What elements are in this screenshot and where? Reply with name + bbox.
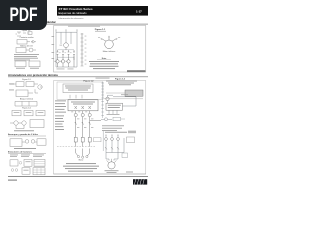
- lead stub 3: [116, 110, 118, 114]
- junction box: [122, 153, 128, 158]
- lc s2 fig 3: [12, 110, 45, 115]
- overload relay 2: [81, 133, 84, 147]
- pilot label 2: [111, 134, 113, 137]
- header title bar: [57, 6, 148, 16]
- aux contact circle: [105, 118, 108, 121]
- bottom bus: [56, 66, 77, 68]
- motor feed wire 3: [87, 149, 89, 157]
- wire into box: [123, 105, 137, 107]
- enclosure dashed boundary: [57, 146, 96, 148]
- lc s2 fig4 caption: [14, 129, 34, 132]
- motor M2: [108, 162, 115, 169]
- svg-text:Contacto auxiliar: Contacto auxiliar: [19, 36, 33, 39]
- lc fig row captions: [16, 67, 25, 70]
- M2 lead left: [107, 160, 109, 163]
- block text: [71, 101, 95, 104]
- control wire 2: [111, 140, 113, 152]
- M2 lead right: [114, 160, 116, 163]
- motor terminal T2: [108, 36, 109, 37]
- lc fig 3: [16, 48, 36, 53]
- coil wire: [65, 38, 67, 43]
- svg-text:Estaciones de botones: Estaciones de botones: [8, 150, 33, 153]
- motor terminal T1: [101, 38, 102, 39]
- motor lead T3: [112, 39, 116, 41]
- motor feed wire 2: [82, 149, 84, 157]
- contact slash 3: [89, 122, 91, 125]
- control wire 1: [105, 140, 107, 152]
- breaker pole 1: [75, 106, 77, 109]
- wire to coil row: [73, 56, 75, 60]
- block terminal numbers: [71, 111, 87, 114]
- overload relay 1: [74, 133, 77, 147]
- lc s3 column headers: [10, 155, 44, 157]
- phase wire 3 lower: [89, 117, 91, 133]
- phase wire 2: [82, 111, 84, 114]
- rail label 2: [52, 43, 55, 46]
- breaker pole 3: [89, 106, 91, 109]
- figure 2 corner label: [126, 171, 133, 174]
- lc s3 row1 box b: [24, 159, 32, 166]
- M2 caption: [105, 169, 119, 172]
- svg-text:1-17: 1-17: [136, 10, 142, 14]
- coil tail wire: [62, 63, 64, 67]
- catalog number box: [127, 70, 145, 72]
- contactor coil M: [64, 43, 69, 48]
- figure 2 frame: [54, 81, 146, 174]
- stub bar: [107, 113, 120, 116]
- note tag box: [94, 138, 102, 142]
- pilot circle 1: [105, 138, 108, 141]
- wire to coil row: [62, 56, 64, 60]
- overload coil 1: [56, 60, 59, 63]
- figure 2 bottom border: [54, 173, 146, 175]
- figure 1 title line: [68, 25, 100, 28]
- svg-text:Bloque terminal: Bloque terminal: [20, 97, 34, 100]
- NO contact 3: [68, 50, 70, 56]
- motor feed wire 1: [76, 149, 78, 157]
- coil lower wire: [65, 48, 67, 50]
- overload coil 3: [67, 60, 70, 63]
- pilot circle 2: [111, 138, 114, 141]
- terminal L1: [55, 31, 57, 33]
- pilot label 3: [117, 134, 119, 137]
- svg-text:Figura 1-5: Figura 1-5: [22, 78, 31, 81]
- svg-text:Arrancadores con protección té: Arrancadores con protección térmica: [8, 73, 58, 77]
- pilot circle 3: [117, 138, 120, 141]
- rail label 4: [52, 57, 55, 60]
- lc subheading A rule: [8, 135, 46, 137]
- svg-text:Arranque y parada de 2 hilos: Arranque y parada de 2 hilos: [8, 133, 39, 136]
- lc s2 fig 1: [10, 82, 42, 97]
- svg-text:Figura 1-3: Figura 1-3: [115, 78, 126, 81]
- right text lines: [106, 81, 137, 86]
- control wire 4: [123, 138, 125, 153]
- pilot label 1: [105, 134, 107, 137]
- coil labels: [54, 45, 67, 62]
- motor terminal circle 3: [86, 156, 88, 158]
- left strip continuation: [102, 131, 104, 151]
- figure 1 caption line 2: [95, 30, 106, 33]
- figure 2b bottom rule: [104, 98, 143, 100]
- NO contact 1: [57, 50, 59, 56]
- coil tail wire: [57, 63, 59, 67]
- svg-text:Motor: Motor: [79, 158, 84, 161]
- svg-text:XT IEC Freedom Series: XT IEC Freedom Series: [59, 7, 93, 11]
- wire to coil row: [68, 56, 70, 60]
- grey device box: [125, 90, 143, 96]
- motor lead T1: [102, 39, 106, 41]
- lc s2 fig 4: [10, 120, 44, 129]
- lc s3 row1 box b text: [25, 160, 30, 163]
- section rule 2: [8, 76, 148, 79]
- small note text row: [105, 131, 127, 134]
- wire to motor right bend: [114, 153, 118, 161]
- branch wire: [70, 32, 72, 44]
- svg-text:Bobina del relé: Bobina del relé: [20, 44, 33, 47]
- control section verticals: [106, 138, 124, 161]
- lc s3 row1 pushbutton pair: [19, 162, 22, 165]
- pilot stub 1: [105, 136, 107, 138]
- branch wire: [60, 32, 62, 44]
- left legend list: [55, 101, 66, 130]
- lc s3 row1 box c grid: [34, 162, 45, 166]
- overload coil 2: [61, 60, 64, 63]
- svg-text:Motor trifásico: Motor trifásico: [103, 50, 116, 53]
- motor terminal T3: [116, 38, 117, 39]
- contact slash 2: [82, 122, 84, 125]
- inner frame A: [57, 82, 103, 99]
- M2 caption line 2: [107, 171, 117, 174]
- contacts top rung: [58, 49, 75, 51]
- terminal stub 3: [81, 95, 83, 99]
- lc s3 row2 box c: [33, 168, 45, 175]
- phase labels T1 T2 T3: [77, 119, 93, 128]
- right rail wire: [76, 32, 78, 67]
- device box wire: [106, 92, 125, 94]
- aux wire down: [107, 101, 109, 104]
- note text lines: [89, 61, 119, 69]
- M2 lead top: [111, 159, 113, 162]
- aux wire up: [107, 95, 109, 97]
- lc fig 1: pushbutton symbols: [16, 32, 33, 36]
- rail label 3: [52, 51, 55, 54]
- small grey tag: [128, 131, 136, 134]
- relay box: [127, 137, 135, 143]
- contact slash 1: [75, 122, 77, 125]
- terminal L3: [76, 31, 78, 33]
- lc s3 row2 box c grid: [33, 168, 45, 175]
- NO contact 2: [62, 50, 64, 56]
- lc s3 row2 contact pair 2: [15, 169, 18, 172]
- PDF badge: [0, 0, 47, 30]
- right terminal strip: [101, 82, 104, 119]
- terminal numbers: [85, 36, 87, 65]
- note box: [63, 84, 93, 93]
- motor label T3 tag: [118, 36, 120, 39]
- text under control box: [102, 124, 124, 127]
- motor M1: [105, 40, 114, 49]
- phase wire 2 lower: [82, 117, 84, 133]
- aux contact wire 2: [108, 118, 113, 120]
- top supply bus: [56, 31, 77, 33]
- rail label 1: [52, 35, 55, 38]
- wire label tag: [121, 93, 128, 96]
- wire to coil row: [57, 56, 59, 60]
- coil tail wire: [73, 56, 75, 67]
- lc s3 row2 box b: [22, 168, 30, 174]
- phase wire 1: [75, 111, 77, 114]
- note box text: [65, 85, 91, 88]
- right vertical wire: [135, 97, 137, 106]
- branch wire: [65, 32, 67, 38]
- lc s3 caption: [14, 147, 36, 150]
- lc s2 fig 3 inner text: [14, 111, 44, 114]
- lc subheading B rule: [8, 152, 46, 154]
- wire to motor left bend: [106, 153, 109, 161]
- lc fig row: box b: [29, 61, 40, 67]
- lc fig 2: [17, 40, 36, 44]
- section rule: [8, 23, 148, 26]
- control wire 3: [117, 140, 119, 152]
- lc s3 row1 box c: [34, 159, 45, 166]
- overload relay 3: [88, 133, 91, 147]
- control bottom bus: [106, 152, 124, 154]
- contactor pole circle 2: [81, 113, 84, 116]
- contact label marks: [59, 52, 72, 54]
- tap wire to aux: [90, 120, 101, 122]
- control device box: [106, 103, 123, 110]
- lead stub 1: [108, 110, 110, 114]
- svg-text:Figura 1-6: Figura 1-6: [22, 107, 31, 110]
- label L3: [76, 29, 78, 31]
- aux tag box: [113, 117, 121, 121]
- footer rule: [8, 175, 148, 178]
- svg-text:Figura 1-1: Figura 1-1: [95, 29, 106, 31]
- aux contact wire: [101, 118, 105, 120]
- bottom paragraph lines: [63, 163, 99, 171]
- pilot stub 3: [117, 136, 119, 138]
- wire to right rail: [113, 96, 136, 98]
- control box text: [108, 104, 121, 107]
- coil bottom labels: [57, 68, 74, 71]
- contactor pole circle 3: [88, 113, 91, 116]
- svg-text:Información de referencia: Información de referencia: [59, 17, 85, 20]
- NO contact 4: [73, 50, 75, 56]
- terminal stub 2: [75, 95, 77, 99]
- contactor pole circle 1: [74, 113, 77, 116]
- lc fig row: box a: [15, 61, 26, 67]
- terminal stub 1: [69, 95, 71, 99]
- breaker pole 2: [82, 106, 84, 109]
- lc s3 row2 contact pair: [11, 169, 14, 172]
- terminal strip: [81, 33, 84, 66]
- contactor block K1: [68, 100, 98, 111]
- lc text block: [14, 54, 39, 60]
- lead stub 2: [112, 110, 114, 114]
- figure 1 frame: [54, 26, 146, 72]
- motor label T1 tag: [98, 36, 100, 39]
- label L1: [55, 29, 57, 31]
- terminal L2: [65, 31, 67, 33]
- Eaton logo: [133, 179, 147, 184]
- lc s3 row1 box a: [10, 160, 18, 166]
- lc s2 fig 2: [15, 101, 37, 106]
- aux contact marks: [105, 147, 119, 149]
- coil tail wire: [68, 63, 70, 67]
- motor lead T2: [108, 37, 110, 40]
- footer text left: [8, 180, 17, 181]
- lc s3 fig 1: [10, 139, 46, 147]
- pilot stub 2: [111, 136, 113, 138]
- motor terminal circle 2: [82, 156, 84, 158]
- aux top wire: [108, 94, 114, 96]
- left rail wire: [55, 32, 57, 67]
- label L2: [65, 29, 67, 31]
- lc s2 labels: [9, 84, 14, 91]
- lc s3 row2 box b text: [23, 169, 28, 172]
- note title underline: [97, 59, 111, 61]
- aux circuit circle: [106, 97, 109, 100]
- phase wire 1 lower: [75, 117, 77, 133]
- aux tag wire: [121, 118, 126, 120]
- phase wire 3: [89, 111, 91, 114]
- figure 2 title line: [96, 77, 110, 80]
- svg-text:Esquemas de cableado: Esquemas de cableado: [59, 11, 88, 15]
- contacts bottom rung: [58, 56, 75, 58]
- motor terminal circle 1: [77, 156, 79, 158]
